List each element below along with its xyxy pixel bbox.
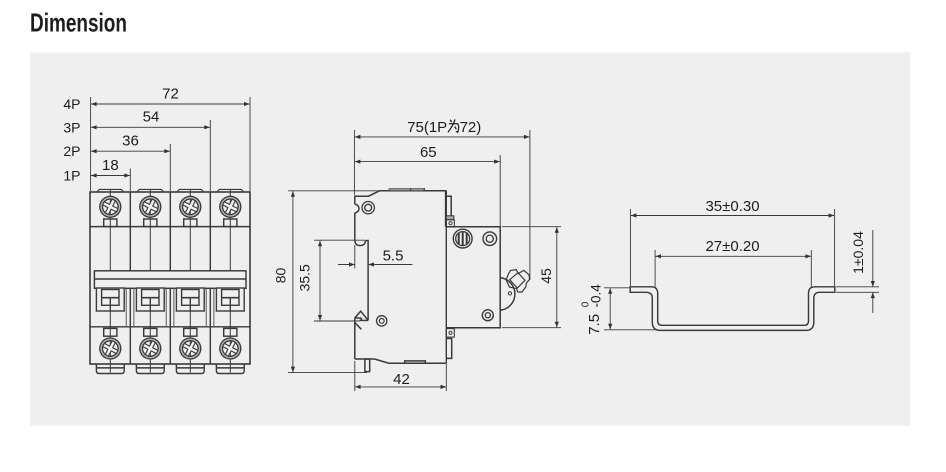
extension line 65 right xyxy=(499,155,501,226)
svg-text:18: 18 xyxy=(102,157,119,174)
extension line 7.5 bottom xyxy=(604,329,658,331)
dimension line 27 xyxy=(655,255,811,257)
extension line 80 top xyxy=(288,190,379,192)
left edge notch to dip xyxy=(354,213,356,240)
dimension line 45 xyxy=(556,227,558,327)
main profile xyxy=(355,191,446,227)
extension line 54 right xyxy=(209,120,211,191)
dimension line 42 xyxy=(355,386,446,388)
dimension line 72 (4P) xyxy=(91,103,250,105)
big screw xyxy=(453,229,472,248)
top dot square xyxy=(446,220,454,227)
extension line left common xyxy=(90,97,92,191)
dimension line 80 xyxy=(292,191,294,372)
svg-text:45: 45 xyxy=(538,268,554,284)
extension line 75 left xyxy=(353,130,355,195)
pole divider lines xyxy=(129,192,131,364)
bottom slot xyxy=(446,339,451,359)
toggle pivot arc xyxy=(500,278,514,310)
rocker band xyxy=(94,271,246,289)
toggle handle pole 4 xyxy=(216,288,244,311)
toggle handle pole 1 xyxy=(96,288,124,311)
top clamps xyxy=(104,219,117,227)
extension line 27 left xyxy=(654,250,656,287)
u-dip xyxy=(355,240,368,321)
bottom clamps xyxy=(104,328,117,336)
bottom seam xyxy=(405,361,426,363)
svg-text:65: 65 xyxy=(420,144,437,161)
toggle lever xyxy=(506,270,529,292)
extension line 35.5 bottom xyxy=(314,320,360,322)
svg-text:54: 54 xyxy=(143,109,160,126)
screw terminal top pole 1 xyxy=(97,193,124,220)
screw terminal bottom pole 1 xyxy=(97,335,124,362)
dimension line 75 xyxy=(355,136,530,138)
inter-pole support walls xyxy=(126,288,214,327)
screw terminal top pole 3 xyxy=(177,193,204,220)
svg-text:3P: 3P xyxy=(63,119,80,135)
extension line 27 right xyxy=(810,250,812,287)
svg-text:27±0.20: 27±0.20 xyxy=(705,238,759,255)
dimension line 7.5 xyxy=(609,288,611,329)
svg-text:1P: 1P xyxy=(63,168,80,184)
svg-text:72: 72 xyxy=(162,85,179,102)
left lower edge xyxy=(354,318,356,359)
side view circles xyxy=(362,202,497,327)
dimension arrow 5.5 right xyxy=(368,264,412,266)
screw terminal top pole 2 xyxy=(137,193,164,220)
extension line 35.5 top xyxy=(314,239,365,241)
extension line 72 right xyxy=(249,97,251,191)
svg-text:36: 36 xyxy=(122,133,139,150)
extension line 42 left xyxy=(354,361,356,391)
dimension line 65 xyxy=(355,161,500,163)
extension line 1 bottom xyxy=(836,291,879,293)
dimension line 36 (2P) xyxy=(91,150,170,152)
svg-text:5.5: 5.5 xyxy=(383,248,404,265)
top gray square xyxy=(446,216,454,220)
svg-text:72): 72) xyxy=(460,119,482,136)
extension line 36 right xyxy=(169,144,171,191)
extension line 45 bottom xyxy=(502,327,561,329)
svg-text:Dimension: Dimension xyxy=(30,8,127,38)
toggle handles xyxy=(96,288,244,311)
extension line 35 left xyxy=(629,209,631,286)
screw terminal bottom pole 4 xyxy=(217,335,244,362)
dimension arrow 1 lower xyxy=(872,293,874,314)
screw terminal bottom pole 3 xyxy=(177,335,204,362)
toggle handle pole 2 xyxy=(136,288,164,311)
extension line 45 top xyxy=(502,226,561,228)
peg xyxy=(365,359,370,372)
bottom edge xyxy=(355,359,447,363)
dimension arrow 1 upper xyxy=(872,230,874,287)
bottom dot square xyxy=(446,329,454,338)
extension line 1 top xyxy=(836,286,879,288)
dimension arrow 5.5 left xyxy=(338,264,355,266)
body outline xyxy=(90,192,250,364)
svg-text:35±0.30: 35±0.30 xyxy=(705,198,759,215)
bottom feet xyxy=(96,364,124,373)
gray panel xyxy=(30,52,910,426)
horizontal separators xyxy=(90,226,250,228)
svg-text:4P: 4P xyxy=(63,96,80,112)
dimension line 35 xyxy=(631,215,834,217)
screw terminal bottom pole 2 xyxy=(137,335,164,362)
top slot xyxy=(446,196,451,215)
extension line 35 right xyxy=(834,209,836,286)
screws front view xyxy=(97,193,244,362)
extension line 42 right xyxy=(445,364,447,391)
right main vertical xyxy=(445,191,447,363)
extension line 80 bottom xyxy=(288,372,367,374)
svg-text:7.5: 7.5 xyxy=(586,314,603,335)
extension line 7.5 top xyxy=(604,287,630,289)
extension line 5.5 left xyxy=(354,245,356,269)
top lip strips xyxy=(389,189,425,191)
svg-text:75(1P: 75(1P xyxy=(407,119,447,136)
pole center lines xyxy=(110,190,230,373)
svg-text:42: 42 xyxy=(393,371,410,388)
top tabs xyxy=(97,189,124,192)
left notch xyxy=(355,204,359,213)
rail dimensions xyxy=(604,209,879,330)
terminal block xyxy=(446,227,500,328)
dimension line 54 (3P) xyxy=(91,126,210,128)
svg-text:80: 80 xyxy=(273,268,289,284)
svg-text:-0.4: -0.4 xyxy=(588,284,603,308)
extension line 18 right xyxy=(129,169,131,192)
toggle handle pole 3 xyxy=(176,288,204,311)
lower hook xyxy=(355,311,369,320)
svg-text:1±0.04: 1±0.04 xyxy=(850,231,866,274)
extension line 75 right xyxy=(529,130,531,280)
dimension line 18 (1P) xyxy=(91,175,130,177)
svg-text:2P: 2P xyxy=(63,143,80,159)
rail profile xyxy=(630,287,835,331)
screw terminal top pole 4 xyxy=(217,193,244,220)
dimension line 35.5 xyxy=(319,241,321,321)
svg-text:35.5: 35.5 xyxy=(297,264,313,291)
